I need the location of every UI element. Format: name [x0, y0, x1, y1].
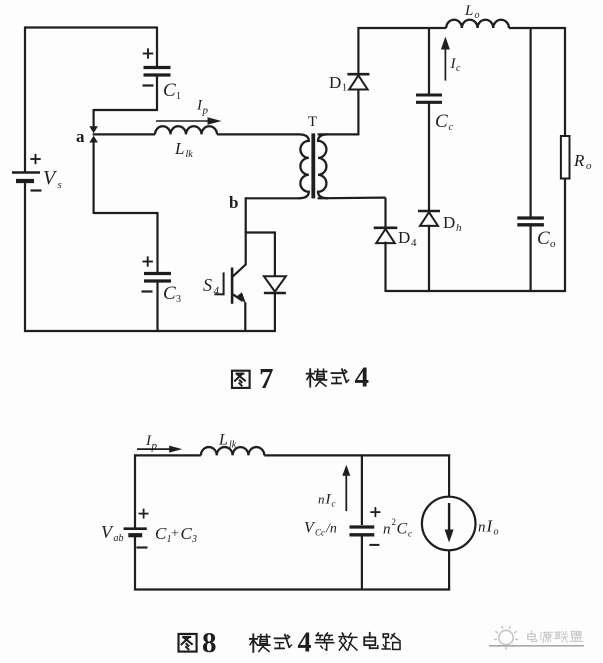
svg-text:L: L: [218, 432, 228, 449]
svg-text:C: C: [435, 111, 448, 132]
svg-text:o: o: [494, 527, 499, 538]
svg-text:ab: ab: [114, 533, 124, 544]
svg-text:3: 3: [191, 534, 197, 545]
svg-text:p: p: [202, 105, 209, 117]
svg-text:I: I: [325, 492, 332, 508]
svg-text:lk: lk: [186, 149, 194, 160]
svg-text:Cc: Cc: [315, 528, 325, 538]
svg-text:4: 4: [298, 628, 312, 659]
svg-text:n: n: [383, 522, 391, 538]
svg-text:4: 4: [355, 362, 370, 394]
svg-text:C: C: [155, 524, 167, 543]
svg-text:c: c: [456, 63, 461, 74]
svg-text:4: 4: [214, 285, 220, 297]
svg-text:1: 1: [176, 91, 181, 102]
svg-text:h: h: [456, 222, 462, 234]
svg-text:3: 3: [176, 294, 181, 305]
svg-text:1: 1: [342, 83, 347, 94]
svg-text:b: b: [229, 193, 238, 212]
svg-text:T: T: [308, 114, 317, 130]
svg-text:n: n: [478, 520, 486, 536]
svg-text:8: 8: [202, 627, 217, 659]
svg-text:s: s: [58, 179, 62, 191]
svg-text:L: L: [464, 3, 473, 19]
svg-text:o: o: [550, 238, 556, 250]
svg-text:R: R: [573, 151, 585, 170]
svg-text:C: C: [397, 521, 408, 538]
svg-text:c: c: [408, 529, 412, 539]
svg-text:C: C: [163, 80, 176, 101]
svg-text:p: p: [151, 440, 158, 452]
svg-text:/n: /n: [325, 522, 337, 537]
svg-text:C: C: [163, 283, 176, 304]
svg-text:D: D: [398, 228, 410, 247]
svg-text:+: +: [171, 527, 179, 542]
svg-text:c: c: [332, 499, 336, 509]
svg-text:D: D: [329, 73, 341, 92]
svg-text:C: C: [181, 524, 193, 543]
svg-text:c: c: [449, 122, 454, 133]
svg-text:7: 7: [259, 363, 274, 395]
svg-text:C: C: [537, 228, 550, 249]
svg-text:S: S: [203, 275, 212, 295]
svg-text:o: o: [475, 10, 480, 21]
svg-text:a: a: [76, 127, 85, 146]
svg-text:n: n: [318, 492, 325, 507]
svg-text:2: 2: [392, 517, 397, 527]
svg-text:lk: lk: [229, 440, 237, 451]
svg-text:L: L: [174, 139, 184, 158]
svg-text:4: 4: [411, 237, 417, 249]
svg-text:o: o: [586, 160, 592, 172]
svg-text:D: D: [443, 213, 455, 232]
